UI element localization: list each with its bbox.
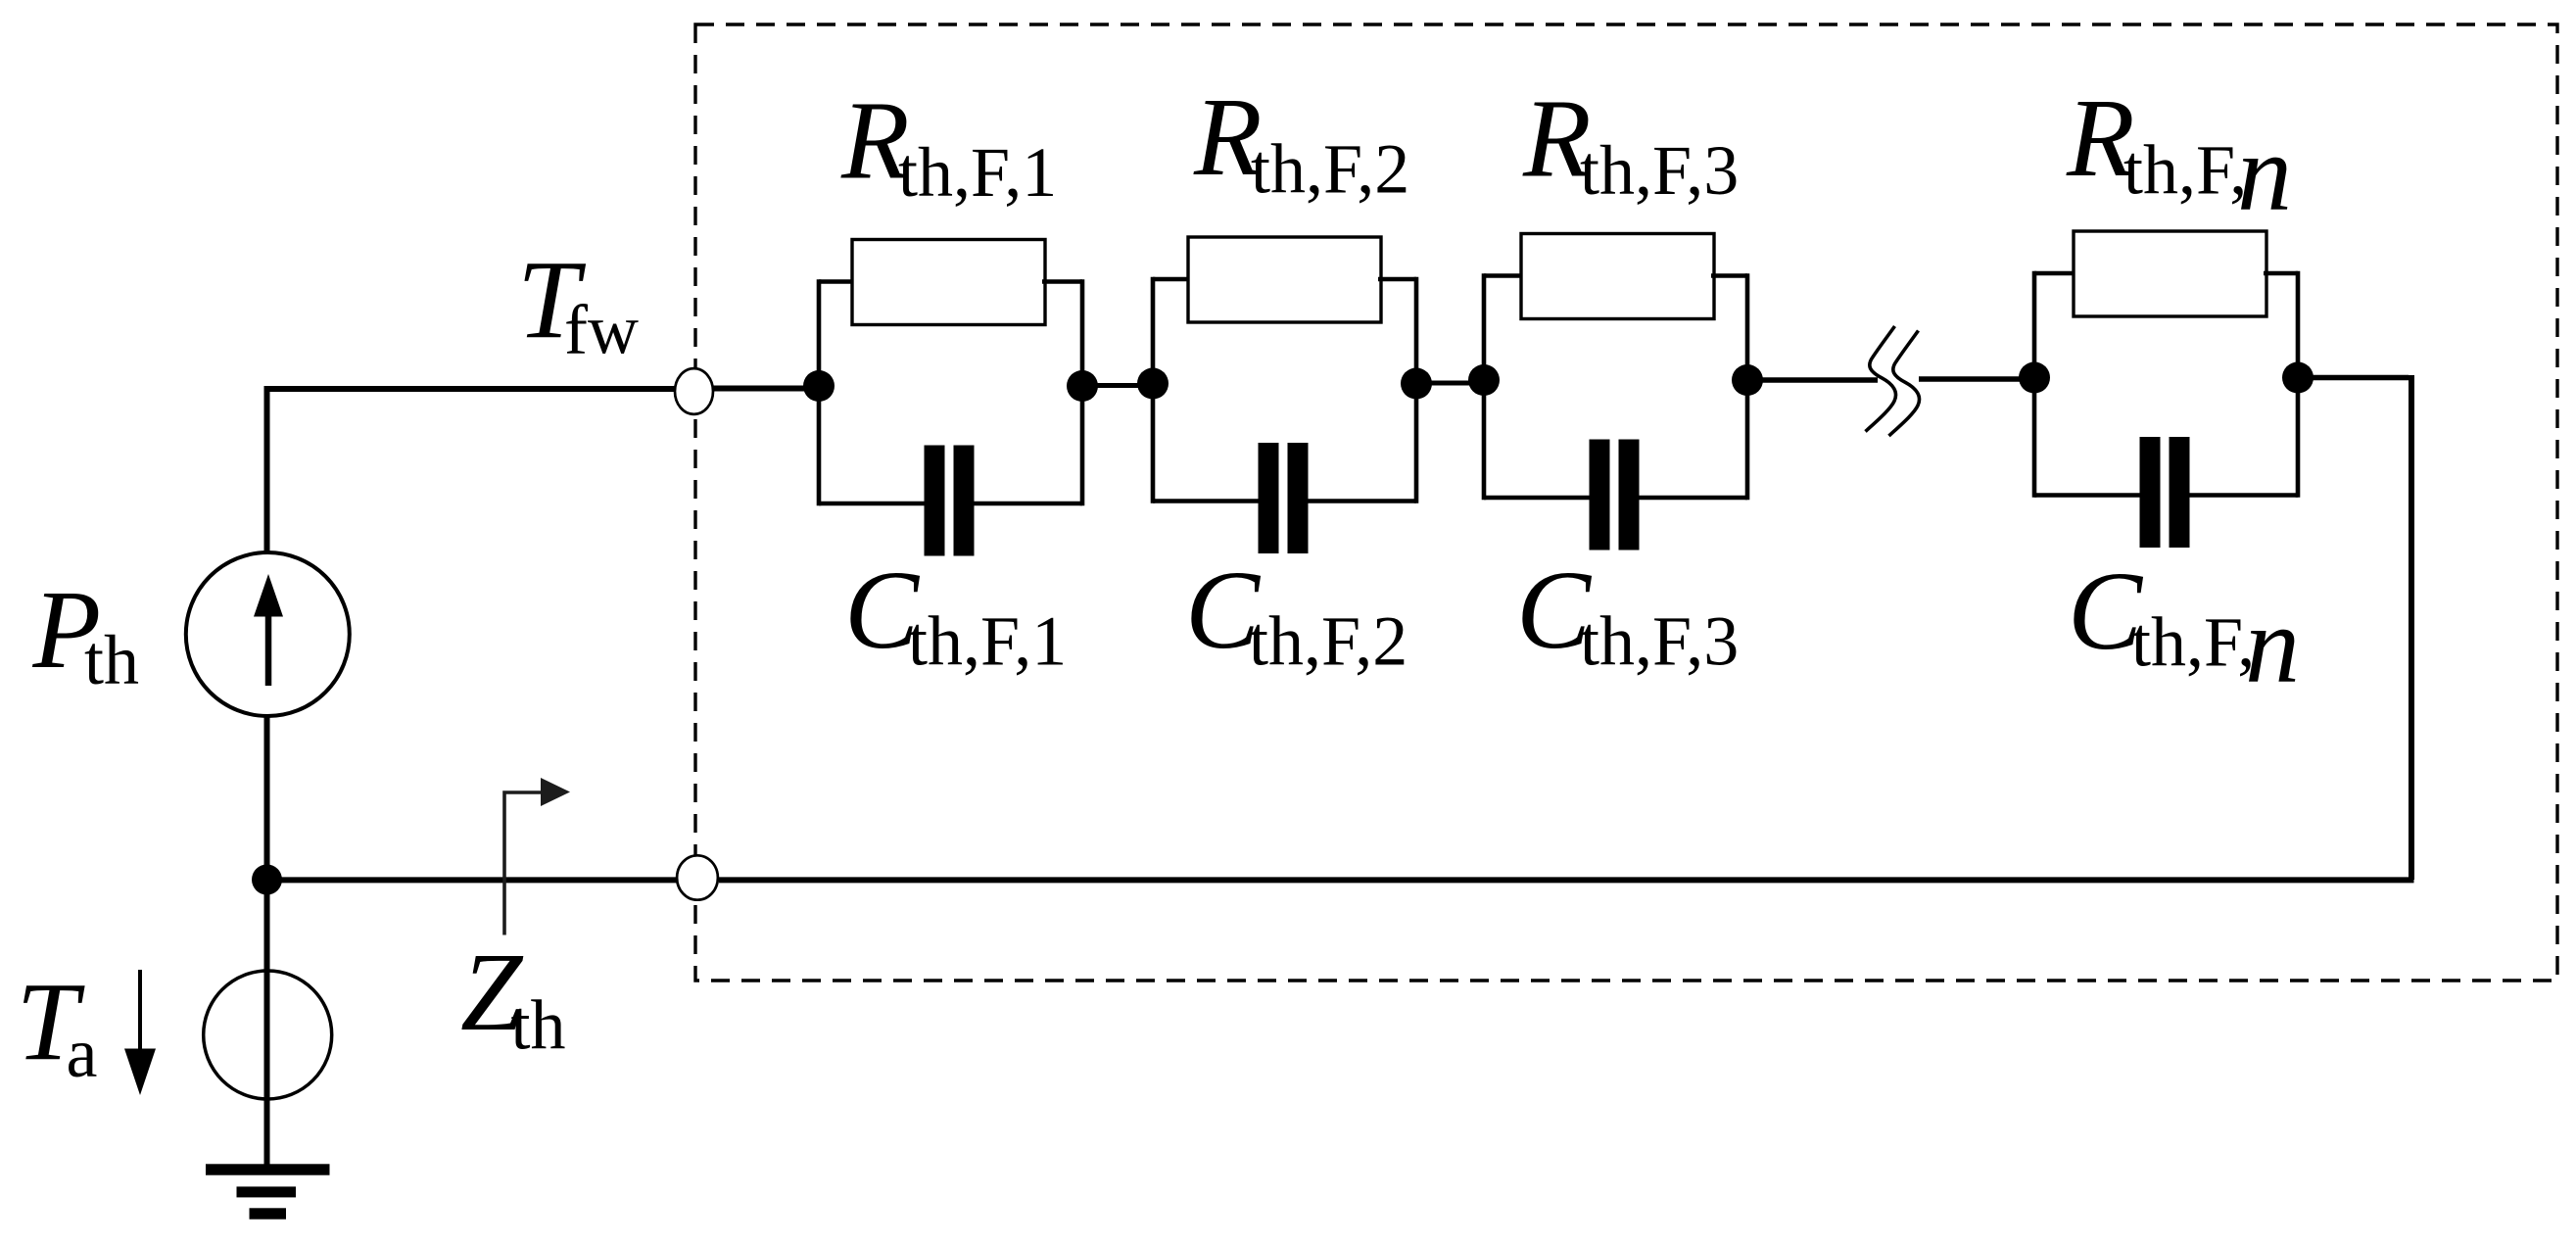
junction node dot bbox=[252, 865, 282, 895]
wire: capacitor to cell 2 bottom-right bbox=[1307, 499, 1417, 503]
capacitor C_th,F,1 right plate bbox=[954, 446, 975, 556]
wire: cell n to return corner bbox=[2298, 375, 2409, 380]
wire: cell n bottom-left to capacitor bbox=[2034, 493, 2142, 498]
break squiggle right bbox=[1889, 331, 1920, 437]
wire: cell 2 left branch bbox=[1153, 277, 1191, 282]
resistor R_th,F,n (box) bbox=[2074, 231, 2266, 316]
arrow of P_th bbox=[265, 614, 272, 686]
dashed boundary box of Foster network bbox=[695, 24, 2557, 981]
wire: right vertical return bbox=[2409, 375, 2414, 880]
capacitor C_th,F,3 right plate bbox=[1619, 440, 1640, 551]
capacitor C_th,F,1 left plate bbox=[925, 446, 945, 556]
resistor R_th,F,3 (box) bbox=[1521, 234, 1714, 319]
node dot cell 1 right bbox=[1067, 370, 1098, 402]
arrow of T_a (downward) bbox=[138, 970, 142, 1050]
wire: cell 2 bottom-left to capacitor bbox=[1153, 499, 1261, 503]
svg-text:n: n bbox=[2237, 113, 2292, 234]
capacitor C_th,F,n left plate bbox=[2140, 437, 2161, 548]
wire: cell 2 right branch bbox=[1378, 277, 1416, 282]
node dot cell n left bbox=[2019, 362, 2050, 394]
break squiggle left bbox=[1866, 326, 1896, 432]
node dot cell 3 right bbox=[1732, 364, 1763, 396]
capacitor C_th,F,3 left plate bbox=[1590, 440, 1610, 551]
wire: top horizontal from source corner to node T_fw bbox=[267, 386, 677, 392]
wire: cell 3 right branch bbox=[1711, 273, 1747, 278]
wire: capacitor to cell 1 bottom-right bbox=[973, 502, 1083, 506]
wire: cell 1 bottom-left to capacitor bbox=[819, 502, 927, 506]
node dot cell 3 left bbox=[1468, 364, 1500, 396]
node dot cell n right bbox=[2282, 362, 2314, 394]
wire: cell3 toward break bbox=[1747, 377, 1878, 382]
wire: break toward cell n bbox=[1919, 376, 2034, 381]
svg-text:th,F,1: th,F,1 bbox=[908, 602, 1067, 681]
capacitor C_th,F,n right plate bbox=[2170, 437, 2190, 548]
svg-text:th,F,: th,F, bbox=[2131, 603, 2255, 682]
wire: bottom return bbox=[719, 877, 2414, 883]
node dot cell 2 right bbox=[1401, 368, 1432, 400]
Z_th measuring arrow bbox=[504, 792, 543, 935]
voltage source T_a (circle over wire) bbox=[204, 971, 332, 1099]
node dot cell 1 left bbox=[803, 370, 835, 402]
svg-text:a: a bbox=[67, 1014, 98, 1092]
node T_fw (open circle) bbox=[675, 368, 713, 414]
svg-text:th: th bbox=[511, 986, 566, 1065]
svg-text:th,F,3: th,F,3 bbox=[1580, 602, 1739, 681]
svg-text:th,F,2: th,F,2 bbox=[1251, 130, 1409, 209]
svg-text:fw: fw bbox=[564, 291, 639, 369]
wire: cell 3 left branch bbox=[1484, 273, 1524, 278]
svg-text:th,F,2: th,F,2 bbox=[1249, 602, 1407, 681]
svg-text:th,F,1: th,F,1 bbox=[898, 133, 1057, 212]
svg-text:th: th bbox=[84, 621, 139, 699]
current source P_th (circle with up arrow) bbox=[186, 552, 350, 716]
wire: T_fw node to cell 1 bbox=[712, 386, 821, 392]
wire: left vertical trunk bbox=[264, 386, 270, 1169]
wire: bottom horizontal from junction to open node bbox=[267, 877, 679, 883]
wire: cell 3 bottom-left to capacitor bbox=[1484, 496, 1592, 501]
wire: cell 1 left branch bbox=[819, 279, 855, 284]
resistor R_th,F,1 (box) bbox=[852, 240, 1045, 325]
svg-text:n: n bbox=[2245, 585, 2300, 706]
wire: cell1 to cell2 bbox=[1082, 383, 1153, 388]
wire: cell2 to cell3 bbox=[1416, 381, 1484, 386]
wire: cell n right branch bbox=[2264, 271, 2298, 276]
capacitor C_th,F,2 left plate bbox=[1259, 443, 1279, 553]
wire: cell 1 right branch bbox=[1042, 279, 1082, 284]
svg-text:th,F,: th,F, bbox=[2123, 131, 2247, 210]
wire: cell n left branch bbox=[2034, 271, 2076, 276]
node dot cell 2 left bbox=[1137, 368, 1169, 400]
svg-text:th,F,3: th,F,3 bbox=[1580, 131, 1739, 210]
resistor R_th,F,2 (box) bbox=[1188, 237, 1381, 322]
bottom node (open circle on return wire) bbox=[677, 855, 718, 899]
ground symbol bbox=[206, 1164, 330, 1174]
wire: capacitor to cell n bottom-right bbox=[2188, 493, 2299, 498]
wire: capacitor to cell 3 bottom-right bbox=[1638, 496, 1748, 501]
capacitor C_th,F,2 right plate bbox=[1288, 443, 1309, 553]
